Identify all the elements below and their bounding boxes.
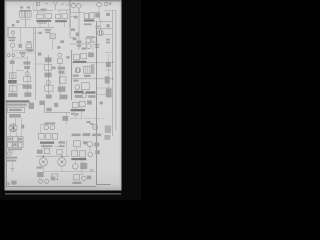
label G <box>12 24 15 27</box>
wires T3 drops <box>75 107 82 119</box>
resistor R4 pair <box>86 36 97 43</box>
wire y146.6 link <box>55 140 61 146</box>
tube V11 top lead <box>42 142 44 149</box>
capacitor C2 <box>11 31 14 42</box>
note <box>39 101 44 105</box>
tube V9 <box>75 85 80 90</box>
wire tie y70.5 <box>16 70 24 72</box>
wire x60 <box>59 63 61 100</box>
ladder stub y70 <box>105 69 113 71</box>
ladder stub y34.5 <box>103 34 112 36</box>
dash-dot divider <box>70 118 105 120</box>
wire x12.2 low <box>6 150 12 154</box>
marks left of V11 <box>37 167 43 169</box>
value note mid <box>52 67 56 70</box>
resistor R9 <box>45 85 53 98</box>
wire x21.8 tall <box>21 118 23 150</box>
resistor R13 <box>84 66 92 73</box>
resistor R5 <box>9 73 16 79</box>
right values <box>105 125 111 133</box>
wire x33.8 <box>33 28 35 52</box>
caption row <box>72 133 102 136</box>
resistor R3 <box>25 41 32 50</box>
IF transformer T2 <box>73 52 94 63</box>
twin capacitors C12 C13 <box>44 122 55 129</box>
tube V6 <box>10 43 14 52</box>
wire vertical x70 <box>69 0 71 28</box>
values <box>58 67 65 70</box>
values <box>6 157 17 159</box>
grid stopper <box>74 16 78 19</box>
tube V2 <box>77 4 81 12</box>
grid label <box>76 32 79 36</box>
tube V12 <box>43 156 96 171</box>
wire y12 link <box>70 12 100 20</box>
resistor R16 <box>74 174 80 180</box>
wire y94.5 <box>97 94 113 96</box>
ladder stub y52.5 <box>105 52 113 54</box>
wire C10 lead <box>74 160 76 163</box>
resistor R10 <box>57 59 62 64</box>
detector notes <box>84 23 92 25</box>
wire y50.8 left <box>13 50 34 52</box>
twin capacitors C8 C9 <box>38 179 48 183</box>
capacitor C10 <box>73 164 79 170</box>
wire stage1 column <box>13 72 28 97</box>
value label <box>19 44 22 48</box>
R1 top label <box>41 9 47 11</box>
resistor R15 <box>74 141 81 147</box>
scribbles above R4 <box>77 41 82 43</box>
mixer X1 box <box>50 34 55 39</box>
tube V11 <box>39 156 47 171</box>
antenna V1 symbol <box>53 1 57 11</box>
right bus line 2 <box>115 11 117 131</box>
ladder stub y88 <box>97 87 113 89</box>
risers above bus <box>33 3 37 11</box>
wire R4 drops <box>87 42 94 50</box>
resistor R19 <box>52 174 58 180</box>
cluster note <box>37 172 43 177</box>
wire main bus y27.5 <box>7 27 54 29</box>
values <box>46 108 51 112</box>
tube V3 <box>97 0 102 12</box>
values <box>23 84 32 88</box>
tube V12 top lead <box>61 154 63 156</box>
stage2 note <box>45 57 52 62</box>
note y38 <box>73 38 77 40</box>
wire y21.8 to bus <box>96 21 113 23</box>
wire x71.7 <box>71 50 73 100</box>
value <box>44 73 51 78</box>
terminal tick <box>61 2 64 5</box>
resistor row RB2 <box>39 133 58 147</box>
tube V8 <box>75 67 80 72</box>
wire x44.5 low link <box>41 125 49 134</box>
frame corner bottom right <box>97 184 111 186</box>
wire x48.3 <box>47 55 49 94</box>
values <box>72 182 81 184</box>
capacitor C3 <box>25 72 29 76</box>
wires <box>77 147 90 152</box>
K small marks <box>71 113 74 115</box>
capacitor C11 <box>82 176 86 180</box>
values <box>58 86 66 91</box>
right margin values <box>106 62 111 67</box>
V10 side note <box>21 125 24 129</box>
ladder stub y62.3 <box>97 61 113 63</box>
wire y62.8 <box>72 62 96 64</box>
value note x38 y33 <box>39 32 42 34</box>
resistor R1 pair <box>36 12 51 24</box>
ground 2 <box>90 169 94 172</box>
tube V10 <box>9 124 17 137</box>
capacitor C1 trio <box>84 13 100 22</box>
wire R1 drops <box>37 11 48 28</box>
right margin notes <box>106 13 110 16</box>
wire top bus right y10 <box>57 9 70 11</box>
ground <box>10 169 14 172</box>
switch mark <box>66 3 69 5</box>
wire y112.5 <box>45 112 71 114</box>
value dark <box>8 80 17 84</box>
notes block <box>6 100 34 109</box>
wire y78.8 to bus <box>72 78 113 80</box>
wire x60 to x66 tie <box>60 73 66 75</box>
value <box>10 60 15 64</box>
resistor R11 <box>59 77 66 83</box>
IF transformer T3 <box>71 100 92 111</box>
wire x70 lower jog <box>70 28 76 38</box>
notes row y74 <box>73 75 79 77</box>
tube V7 <box>87 44 92 49</box>
wire T1 secondary lead <box>24 17 26 27</box>
wire y16 <box>70 15 74 17</box>
resistor R18 <box>57 149 62 154</box>
vertical page label A-707 <box>7 27 8 39</box>
wire left bus x35.7 <box>35 28 37 101</box>
junction dot <box>61 155 63 157</box>
resistor R7 <box>24 77 31 82</box>
oscillator G1 <box>90 123 98 129</box>
output transformer T4 <box>71 150 99 160</box>
tube V4 <box>104 2 111 6</box>
value <box>8 93 17 97</box>
label T <box>11 181 16 185</box>
R13 hatch <box>86 66 90 73</box>
stage notes <box>23 61 30 64</box>
value note <box>66 56 69 58</box>
right bus line 1 <box>112 10 114 136</box>
wire R2 drops <box>58 10 67 28</box>
T1 left note <box>16 20 19 23</box>
right rail x108 <box>107 54 109 96</box>
junction dot <box>43 155 45 157</box>
bottom frame <box>6 186 96 188</box>
cap C14 <box>21 54 24 57</box>
value note <box>45 29 52 31</box>
wire x82 bottom <box>80 160 84 174</box>
capacitor C6 <box>87 141 92 146</box>
capacitor C5 <box>58 53 62 57</box>
tube V5 <box>98 20 104 36</box>
wire tie y58 <box>13 57 27 59</box>
wire y28.3 to bus <box>96 27 113 29</box>
values <box>83 141 87 144</box>
wire to V10 <box>15 118 17 124</box>
wire stage1 <box>12 58 14 73</box>
value rows low mid <box>58 141 65 143</box>
capacitor C7 <box>8 152 11 155</box>
wire x79 vertical <box>78 8 80 50</box>
terminal row with sockets <box>5 50 35 57</box>
resistor bank RB1 <box>8 137 24 150</box>
wire tie y84.5 <box>17 84 24 86</box>
resistor R17 <box>44 149 50 154</box>
wire bus y156.2 <box>36 155 70 157</box>
wire y33 stub <box>34 32 38 34</box>
resistor R14 <box>82 82 90 89</box>
V11 label <box>37 150 43 154</box>
scatter notes B lower <box>60 40 64 43</box>
wire y44 <box>70 43 86 45</box>
transformer T1 <box>20 6 31 17</box>
junction dots bus <box>112 62 113 63</box>
left frame line <box>5 100 7 187</box>
value <box>80 163 87 169</box>
spec table <box>8 107 25 117</box>
value <box>62 116 68 121</box>
wire x66.8 low <box>66 140 68 156</box>
detector cluster <box>74 91 96 98</box>
wire <box>11 162 13 169</box>
vertical note column <box>91 64 95 74</box>
resistor R8 <box>45 64 52 70</box>
wire right rail long <box>96 22 98 185</box>
note <box>38 52 42 55</box>
wire tie y64 <box>36 63 45 65</box>
wire mixer drop <box>52 39 54 50</box>
label 4X8 <box>71 28 75 31</box>
tube V1 <box>71 0 76 9</box>
wire x44.5 <box>44 100 46 113</box>
terminal block top <box>37 2 48 5</box>
resistor R6 <box>9 86 17 91</box>
wire x66.5 <box>66 113 68 125</box>
T1 bottom line <box>20 19 31 21</box>
value <box>51 177 55 181</box>
value rows <box>8 37 15 39</box>
wire x20.5 <box>20 28 22 43</box>
wire top bus left y10.5 <box>33 10 53 12</box>
resistor R2 pair <box>55 14 67 23</box>
wire top right <box>105 9 116 11</box>
wire x27 <box>26 56 28 72</box>
capacitor C4 <box>46 81 50 85</box>
value labels <box>95 44 100 46</box>
notes line under text block <box>6 105 28 107</box>
